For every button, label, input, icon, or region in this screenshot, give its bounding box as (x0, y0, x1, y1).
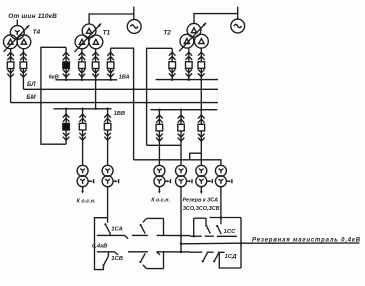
svg-text:0,4кВ: 0,4кВ (92, 244, 108, 250)
svg-text:БЛ: БЛ (27, 82, 36, 88)
svg-text:1ВА: 1ВА (119, 75, 130, 81)
svg-text:К о.с.н.: К о.с.н. (77, 198, 96, 204)
svg-text:1СС: 1СС (224, 229, 237, 235)
svg-text:К о.с.н.: К о.с.н. (151, 198, 170, 204)
svg-text:6кВ: 6кВ (49, 74, 59, 80)
svg-text:БМ: БМ (26, 95, 36, 101)
svg-text:1ВВ: 1ВВ (114, 111, 125, 117)
svg-text:Т2: Т2 (163, 29, 171, 36)
svg-text:От шин 110кВ: От шин 110кВ (8, 13, 57, 20)
svg-text:Резерв к ЗСА: Резерв к ЗСА (183, 198, 219, 204)
svg-text:ЗСО,ЗСО,ЗСВ: ЗСО,ЗСО,ЗСВ (183, 206, 220, 212)
svg-text:1СВ: 1СВ (111, 256, 124, 262)
svg-text:Резервная магистраль 0,4кВ: Резервная магистраль 0,4кВ (252, 237, 361, 243)
svg-text:1СА: 1СА (111, 227, 123, 233)
svg-text:Т1: Т1 (103, 29, 111, 36)
svg-text:1СД: 1СД (225, 254, 238, 260)
svg-text:Т4: Т4 (33, 29, 41, 36)
